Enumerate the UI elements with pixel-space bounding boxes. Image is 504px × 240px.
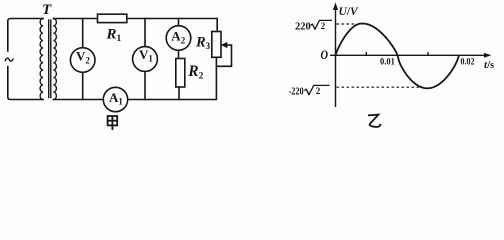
svg-text:220: 220 <box>295 22 311 33</box>
svg-text:R1: R1 <box>106 26 122 44</box>
svg-text:T: T <box>42 2 52 18</box>
svg-text:U/V: U/V <box>339 6 360 18</box>
svg-text:t/s: t/s <box>484 59 494 71</box>
svg-text:0.02: 0.02 <box>461 58 475 68</box>
svg-text:R2: R2 <box>187 63 203 82</box>
svg-text:R3: R3 <box>195 35 211 52</box>
svg-text:O: O <box>321 47 329 62</box>
svg-text:-220: -220 <box>289 87 304 98</box>
svg-text:0.01: 0.01 <box>380 58 395 68</box>
svg-text:2: 2 <box>316 86 321 96</box>
svg-text:2: 2 <box>321 21 326 31</box>
